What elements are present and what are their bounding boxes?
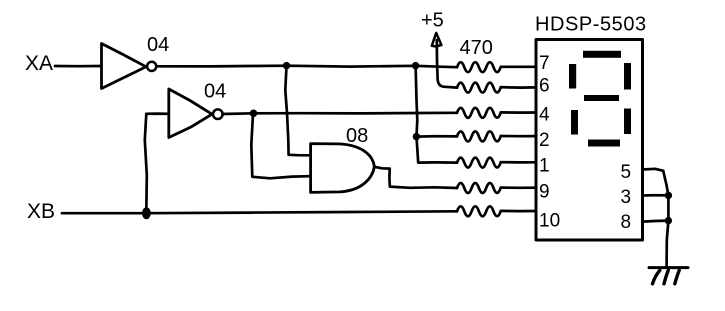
wire V2 down to AND upper input xyxy=(285,66,310,155)
svg-text:+5: +5 xyxy=(421,10,444,32)
svg-text:04: 04 xyxy=(204,81,226,103)
wire V1 (XB up to inverter B) xyxy=(145,114,147,213)
svg-text:9: 9 xyxy=(539,181,550,202)
wire pin3 xyxy=(643,194,669,197)
wire row3 (inverter B out to R3) xyxy=(223,113,457,114)
wire XB row (to R7) xyxy=(62,211,457,213)
resistor R5 xyxy=(457,158,501,168)
wire common vertical xyxy=(663,171,668,266)
wire R4 to pin2 xyxy=(501,135,536,138)
svg-text:XA: XA xyxy=(25,52,53,75)
wire XA input xyxy=(55,65,101,68)
junction pin8 common xyxy=(665,217,672,224)
junction V3 row4 xyxy=(413,133,420,140)
svg-text:8: 8 xyxy=(621,212,632,233)
wire R7 to pin10 xyxy=(501,210,536,213)
junction row3 to AND tap xyxy=(250,110,258,118)
svg-text:1: 1 xyxy=(539,156,550,177)
segment c xyxy=(624,109,631,135)
wire R1 to pin7 xyxy=(501,65,536,68)
junction XB V1 xyxy=(142,207,151,219)
svg-text:08: 08 xyxy=(346,125,368,147)
inverter U1B 04 xyxy=(169,81,226,138)
junction row1 to V3 xyxy=(412,62,419,69)
wire R5 to pin1 xyxy=(501,161,536,164)
svg-text:2: 2 xyxy=(539,130,550,151)
ground xyxy=(649,268,688,284)
junction pin3 common xyxy=(665,192,672,199)
wire R6 to pin9 xyxy=(501,186,536,189)
junction row1 to AND tap xyxy=(283,62,290,69)
resistor R3 xyxy=(457,108,501,118)
inverter U1A 04 xyxy=(102,34,170,89)
segment d xyxy=(588,140,620,147)
resistor R4 xyxy=(457,131,501,141)
wire row1 (inverter A out to R1) xyxy=(157,66,458,68)
wire AND output to row6 xyxy=(374,167,457,188)
svg-text:7: 7 xyxy=(539,53,550,74)
wire inverter B input xyxy=(146,112,169,115)
segment g xyxy=(584,95,619,101)
svg-text:6: 6 xyxy=(539,75,550,96)
wire R2 to pin6 xyxy=(501,86,536,89)
wire pin8 xyxy=(643,221,669,222)
wire to AND lower input xyxy=(251,114,310,179)
and-gate U2 08 xyxy=(311,125,375,192)
svg-text:XB: XB xyxy=(27,200,55,223)
svg-text:5: 5 xyxy=(621,162,632,183)
display U3 HDSP-5503 xyxy=(535,14,647,241)
svg-text:HDSP-5503: HDSP-5503 xyxy=(535,14,647,36)
wire +5 to row2 xyxy=(437,40,457,88)
resistor R1 470 xyxy=(457,37,501,72)
svg-text:04: 04 xyxy=(147,34,169,56)
resistor R2 xyxy=(457,83,501,93)
wire pin5 to common xyxy=(643,169,664,171)
segment b xyxy=(624,63,631,90)
svg-text:10: 10 xyxy=(539,210,560,231)
svg-text:470: 470 xyxy=(460,37,493,59)
segment e xyxy=(571,110,578,135)
wire R3 to pin4 xyxy=(501,111,536,114)
segment f xyxy=(569,64,576,89)
power arrow xyxy=(432,33,442,47)
seven-segment digit: segment a xyxy=(583,51,621,58)
svg-text:4: 4 xyxy=(539,104,550,125)
resistor R7 xyxy=(457,206,501,216)
resistor R6 xyxy=(457,183,501,193)
wire row4 (to R4) xyxy=(416,135,457,138)
wire V3 (row1 down to row4 and row5) xyxy=(416,66,457,163)
svg-text:3: 3 xyxy=(621,187,632,208)
